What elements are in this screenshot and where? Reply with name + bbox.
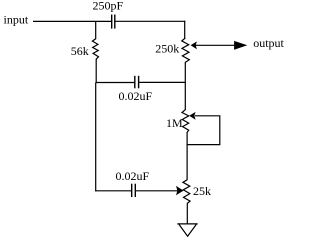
wiper arrow R2 bbox=[191, 41, 197, 49]
label 56k bbox=[71, 44, 89, 58]
wire R3 wiper loop bbox=[187, 116, 220, 145]
wire node A down left rail bbox=[95, 83, 97, 192]
svg-text:0.02uF: 0.02uF bbox=[119, 89, 153, 103]
wire R2 wiper to output arrow bbox=[196, 44, 236, 46]
resistor R3 1M bbox=[182, 110, 189, 133]
wire node A to C2 bbox=[96, 82, 135, 84]
svg-text:1M: 1M bbox=[166, 116, 183, 130]
wire input to C1 bbox=[33, 20, 111, 22]
output terminal arrow bbox=[234, 41, 247, 50]
label 0.02uF bbox=[119, 89, 153, 103]
label 250k bbox=[155, 42, 179, 56]
wire R1 to node A bbox=[95, 59, 97, 83]
wire C2 to right rail bbox=[139, 81, 186, 83]
ground bbox=[177, 224, 197, 236]
wire C1 to right rail bbox=[115, 20, 185, 22]
svg-text:56k: 56k bbox=[71, 44, 89, 58]
capacitor C3 0.02uF bbox=[132, 184, 136, 197]
capacitor C1 250pF bbox=[112, 15, 115, 29]
svg-text:output: output bbox=[253, 36, 284, 50]
svg-text:0.02uF: 0.02uF bbox=[116, 169, 150, 183]
wire R3 to R4 bbox=[186, 132, 188, 180]
wire R4 to ground bbox=[186, 203, 188, 224]
label 250pF bbox=[93, 0, 124, 13]
svg-text:input: input bbox=[4, 12, 29, 26]
wire bottom corner to C3 bbox=[95, 190, 131, 192]
svg-text:25k: 25k bbox=[193, 184, 211, 198]
node output label bbox=[253, 36, 284, 50]
node input label bbox=[4, 12, 29, 26]
label 25k bbox=[193, 184, 211, 198]
svg-text:250pF: 250pF bbox=[93, 0, 124, 13]
resistor R2 250k bbox=[182, 38, 190, 62]
label 1M bbox=[166, 116, 183, 130]
wire C3 to R4 wiper bbox=[136, 190, 178, 192]
svg-text:250k: 250k bbox=[155, 42, 179, 56]
resistor R4 25k bbox=[183, 180, 190, 204]
label 0.02uF bottom bbox=[116, 169, 150, 183]
wiper arrow R3 bbox=[189, 112, 195, 120]
wire junction input node to R1 bbox=[95, 21, 97, 39]
capacitor C2 0.02uF bbox=[135, 76, 139, 89]
wire right rail top to R2 bbox=[184, 21, 186, 39]
resistor R1 56k bbox=[92, 39, 98, 60]
wire right rail R2 to R3 bbox=[184, 62, 186, 110]
wiper arrow R4 bbox=[176, 186, 184, 195]
